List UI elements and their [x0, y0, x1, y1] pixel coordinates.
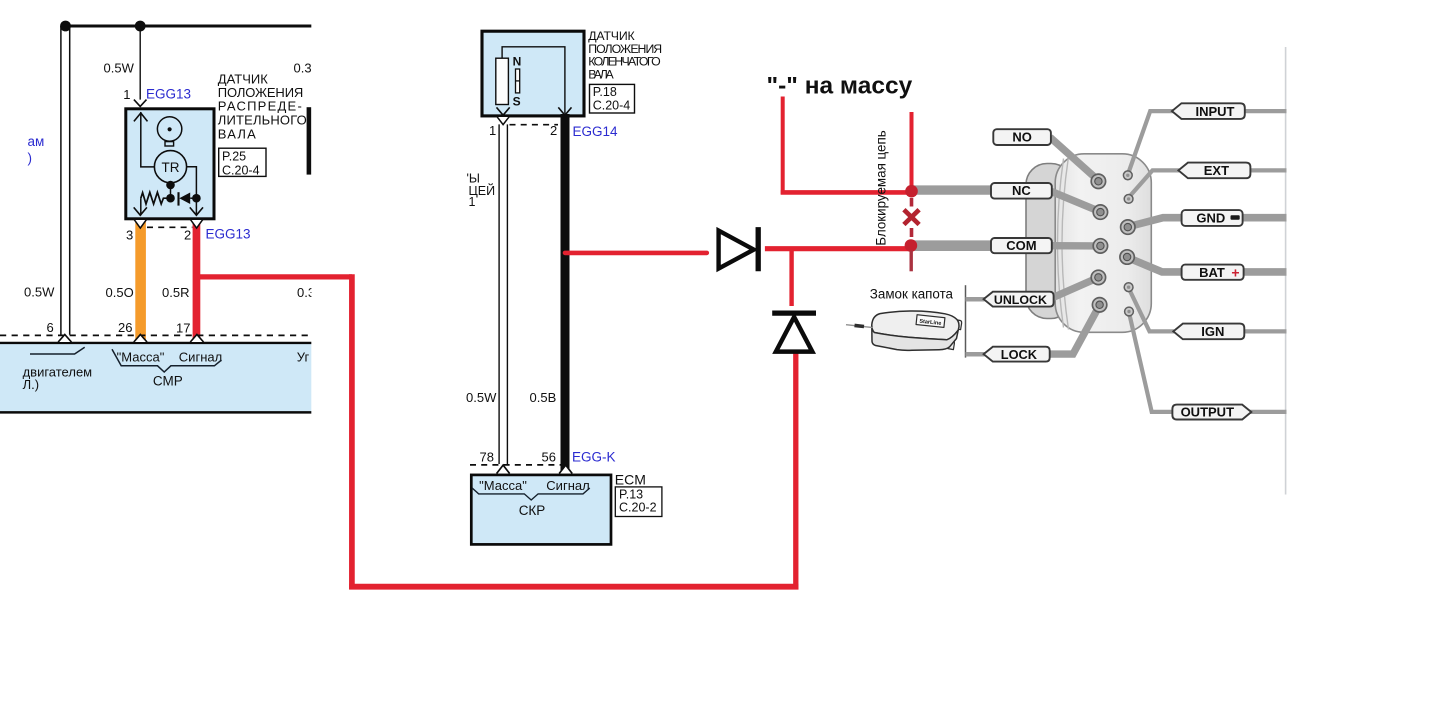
svg-text:26: 26	[118, 320, 132, 335]
wire: EXT tail	[1250, 168, 1286, 172]
label tag: NC	[991, 183, 1052, 199]
svg-text:"-" на массу: "-" на массу	[767, 73, 913, 100]
wire: GND tail	[1243, 214, 1287, 222]
svg-text:ECM: ECM	[615, 472, 646, 488]
magnet bar	[516, 69, 520, 93]
ECM (left) box top border	[0, 342, 311, 344]
svg-text:EXT: EXT	[1204, 163, 1229, 178]
wire: red loop right vertical	[793, 352, 798, 589]
brace fragment top left	[30, 347, 85, 354]
svg-text:СМР: СМР	[153, 374, 183, 389]
svg-text:56: 56	[542, 450, 556, 465]
pin 6 chevron into ECM	[58, 335, 71, 343]
reference box P.25 C.20-4	[219, 148, 266, 176]
wire: COM lead	[1051, 242, 1100, 250]
wire: internal loop	[502, 47, 565, 114]
pin 1 chevron below CKP	[497, 116, 510, 124]
dashed connector line EGG14	[510, 124, 559, 126]
arrowheads (down chevrons) at box bottom	[134, 207, 147, 215]
wire: OUTPUT tail	[1247, 410, 1287, 414]
svg-text:LOCK: LOCK	[1001, 347, 1038, 362]
wire: GND lead	[1129, 218, 1182, 227]
svg-text:): )	[28, 151, 33, 166]
svg-text:1: 1	[489, 123, 496, 138]
svg-text:EGG13: EGG13	[146, 87, 191, 102]
sensor element circle	[157, 117, 181, 141]
label tag: EXT	[1178, 163, 1250, 179]
svg-text:EGG-K: EGG-K	[572, 450, 616, 465]
connector pins: left column (large)	[1091, 174, 1107, 312]
wire: INPUT lead	[1128, 111, 1173, 173]
node: junction dot A	[60, 21, 71, 32]
wire: NO lead	[1050, 137, 1098, 180]
node: junction dot B	[135, 21, 146, 32]
wire: white 0.5W double line	[498, 124, 500, 464]
body crease lines	[1058, 159, 1064, 328]
svg-text:GND: GND	[1196, 211, 1225, 226]
svg-text:IGN: IGN	[1201, 324, 1224, 339]
ECM box (CKP)	[471, 475, 611, 545]
label tag: LOCK	[984, 347, 1050, 362]
label tag: NO	[993, 129, 1051, 145]
svg-text:2: 2	[184, 228, 191, 243]
connector body main face	[1055, 154, 1151, 332]
wire: right branch from TR	[187, 167, 197, 216]
resistor (zigzag)	[141, 192, 171, 204]
pin 56 chevron into ECM	[559, 465, 572, 473]
wire: red horizontal to NC junction	[781, 190, 910, 195]
svg-text:0.5W: 0.5W	[104, 61, 135, 76]
coil element	[496, 58, 509, 104]
page crop bar	[307, 107, 312, 174]
node: junction dots	[166, 181, 175, 190]
wire: top bus	[64, 24, 311, 27]
svg-text:ам: ам	[28, 134, 45, 149]
wire: NC lead	[1051, 191, 1100, 212]
brace joining pins to CKP label	[472, 488, 590, 500]
crankshaft position sensor box	[482, 31, 584, 116]
svg-text:6: 6	[47, 320, 54, 335]
svg-text:OUTPUT: OUTPUT	[1181, 404, 1235, 419]
svg-text:COM: COM	[1006, 238, 1036, 253]
wire: red stub above NC junction	[910, 112, 914, 187]
svg-text:P.13: P.13	[619, 487, 643, 501]
svg-text:C.20-4: C.20-4	[222, 164, 260, 178]
svg-text:NC: NC	[1012, 183, 1031, 198]
pin 17 chevron into ECM	[190, 335, 203, 343]
node: COM junction dot	[905, 239, 918, 252]
reference box P.13 C.20-2	[615, 487, 662, 517]
wire: BAT tail	[1244, 268, 1287, 276]
svg-text:S: S	[513, 95, 521, 109]
wire: red stub down to diode D2	[789, 251, 793, 307]
svg-text:UNLOCK: UNLOCK	[994, 293, 1047, 307]
svg-text:0.5W: 0.5W	[466, 390, 497, 405]
wire: lead to CMP pin 1	[139, 26, 141, 100]
camshaft position sensor box (CMP)	[126, 109, 214, 219]
svg-text:Сигнал: Сигнал	[179, 350, 222, 365]
svg-text:0.5B: 0.5B	[530, 390, 557, 405]
svg-text:P.25: P.25	[222, 150, 246, 164]
svg-text:Сигнал: Сигнал	[546, 478, 589, 493]
pin 26 chevron into ECM	[134, 335, 147, 343]
ECM (left) box bottom border	[0, 411, 311, 414]
transistor TR circle	[154, 151, 186, 183]
node: NC junction dot	[905, 185, 918, 198]
svg-text:Л.): Л.)	[23, 377, 39, 392]
wire: red from D1 to blocked-circuit junction	[765, 246, 909, 251]
svg-text:0.5O: 0.5O	[106, 285, 134, 300]
arrowheads at CKP box bottom	[497, 107, 510, 115]
svg-text:Уг: Уг	[297, 350, 310, 365]
svg-text:0.3: 0.3	[297, 285, 315, 300]
label tag: GND -	[1182, 210, 1243, 226]
svg-text:BAT: BAT	[1199, 265, 1225, 280]
wire: TR bottom lead	[170, 183, 172, 198]
svg-text:1: 1	[123, 87, 130, 102]
wire: UNLOCK lead	[1049, 278, 1099, 300]
wire: black 0.5B	[561, 114, 570, 474]
wire: IGN tail	[1244, 329, 1286, 333]
svg-text:NO: NO	[1012, 130, 1032, 145]
svg-text:+: +	[1231, 264, 1239, 280]
label tag: UNLOCK	[984, 292, 1054, 307]
pin 3 connector chevron	[134, 219, 147, 228]
connector pins: right column	[1120, 171, 1135, 316]
pin 1 connector chevron at CMP box top	[134, 100, 147, 107]
svg-text:C.20-2: C.20-2	[619, 500, 657, 514]
svg-text:C.20-4: C.20-4	[593, 99, 631, 113]
pin 78 chevron into ECM	[497, 465, 510, 473]
hood-lock separator line	[965, 285, 967, 357]
reference box P.18 C.20-4	[590, 84, 635, 113]
dashed connector line EGG13 bottom	[147, 226, 192, 228]
wire: red stub below COM junction	[910, 251, 913, 272]
svg-text:2: 2	[550, 123, 557, 138]
wire: red branch from CMP signal	[197, 274, 352, 279]
svg-text:INPUT: INPUT	[1196, 104, 1235, 119]
wire: red from 0.5B wire to diode D1	[565, 251, 707, 256]
wire: COM gray bar	[913, 240, 992, 251]
wire: red 0.5R	[193, 219, 201, 342]
wire: INPUT tail	[1245, 109, 1287, 113]
pin 2 connector chevron	[190, 219, 203, 228]
svg-text:"Масса": "Масса"	[117, 350, 165, 365]
wire: EXT lead	[1129, 170, 1180, 197]
svg-text:Блокируемая цепь: Блокируемая цепь	[874, 130, 889, 246]
wire: dashed blocked link + X	[910, 198, 914, 207]
wire: red ground drop	[781, 97, 785, 195]
label tag: BAT +	[1182, 265, 1244, 280]
svg-text:Замок капота: Замок капота	[870, 286, 954, 301]
wire: BAT lead	[1128, 258, 1183, 272]
label tag: COM	[991, 238, 1052, 253]
label tag: IGN	[1173, 324, 1244, 340]
diode (pointing left) inside CMP	[177, 192, 179, 205]
wire: OUTPUT lead	[1129, 313, 1173, 412]
connector body side face	[1026, 164, 1072, 319]
hood lock device (StarLine)	[872, 311, 962, 350]
SECTION: left diagram	[0, 21, 315, 413]
svg-text:1: 1	[469, 195, 476, 209]
wire: orange 0.5O	[135, 219, 146, 342]
svg-text:ВАЛА: ВАЛА	[218, 126, 256, 141]
node: junction dot right	[192, 194, 201, 203]
svg-text:TR: TR	[162, 160, 180, 175]
wire: NC gray bar	[913, 185, 992, 194]
svg-text:ПОЛОЖЕНИЯ: ПОЛОЖЕНИЯ	[588, 42, 662, 56]
svg-text:0.5R: 0.5R	[162, 285, 189, 300]
svg-text:"Масса": "Масса"	[479, 478, 527, 493]
svg-text:EGG13: EGG13	[206, 227, 251, 242]
label tag: INPUT	[1172, 103, 1245, 119]
brace joining pins to CMP label	[112, 349, 222, 372]
page boundary line (right)	[1285, 47, 1287, 495]
svg-text:78: 78	[480, 450, 494, 465]
wire: UNLOCK stub	[966, 297, 985, 302]
svg-text:0.5W: 0.5W	[24, 285, 55, 300]
dashed connector line EGG-K	[470, 464, 561, 466]
diode D2 (vertical, zener-style)	[772, 311, 816, 316]
svg-text:ВАЛА: ВАЛА	[588, 67, 614, 81]
label tag: OUTPUT	[1172, 405, 1251, 420]
diode D1 (horizontal)	[719, 231, 754, 269]
svg-text:0.3: 0.3	[294, 61, 312, 76]
ECM (left) box fill	[0, 344, 311, 411]
wire: LOCK lead	[1050, 305, 1100, 354]
svg-text:N: N	[513, 55, 522, 69]
dashed connector line above ECM	[0, 334, 311, 336]
svg-text:EGG14: EGG14	[573, 124, 619, 139]
hood lock cable	[846, 325, 873, 328]
wire: white wire 0.5W double line to pin 6	[60, 26, 62, 335]
wire: red loop bottom	[349, 584, 798, 590]
wire: IGN lead	[1129, 288, 1174, 331]
svg-text:ЛИТЕЛЬНОГО: ЛИТЕЛЬНОГО	[218, 112, 307, 127]
wire: red loop left vertical	[349, 274, 355, 589]
svg-text:СКР: СКР	[519, 503, 546, 518]
svg-text:РАСПРЕДЕ-: РАСПРЕДЕ-	[218, 99, 302, 114]
svg-text:P.18: P.18	[593, 85, 617, 99]
svg-text:17: 17	[176, 321, 190, 336]
svg-text:3: 3	[126, 228, 133, 243]
wire: LOCK stub	[966, 352, 985, 357]
wire: left branch with up arrow	[141, 112, 155, 167]
